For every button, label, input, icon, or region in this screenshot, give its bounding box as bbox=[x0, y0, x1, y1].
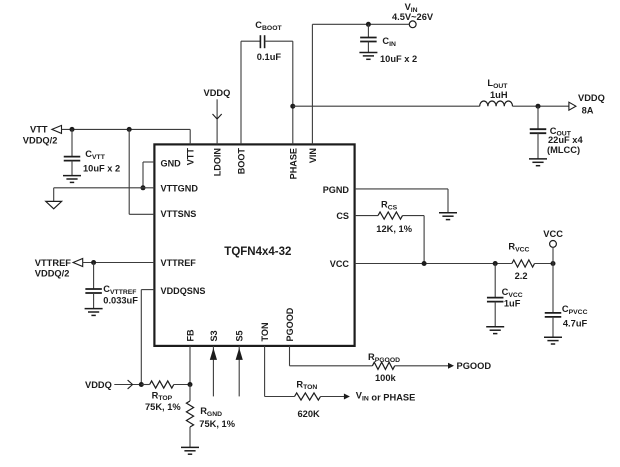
label VDDQ/2 bbox=[23, 135, 58, 145]
wire S3 strap bbox=[212, 346, 214, 397]
pin label VTTREF bbox=[161, 258, 197, 268]
capacitor CBOOT bbox=[241, 35, 293, 48]
junction dot PHASE bbox=[290, 104, 295, 109]
wire TON pin lead bbox=[265, 346, 295, 397]
label 22uF x4 bbox=[548, 135, 583, 145]
capacitor COUT bbox=[530, 106, 547, 159]
arrowhead VDDQ right bbox=[128, 380, 133, 389]
junction dot VTTREF/Cvttref bbox=[91, 260, 96, 265]
pin label CS bbox=[336, 211, 349, 221]
svg-text:VCC: VCC bbox=[543, 229, 563, 239]
pin label BOOT bbox=[237, 148, 247, 175]
label 10uF x 2 cin bbox=[380, 54, 417, 64]
svg-text:VTTSNS: VTTSNS bbox=[161, 209, 197, 219]
wire VDDQ into LDOIN pin bbox=[216, 99, 218, 144]
label 12K 1% bbox=[376, 224, 412, 234]
svg-text:GND: GND bbox=[161, 159, 182, 169]
label VDDQ top bbox=[204, 88, 231, 98]
svg-text:VIN: VIN bbox=[308, 148, 318, 163]
node VTTREF output terminal arrow bbox=[73, 259, 83, 267]
wire RCS to VCC rail bbox=[403, 216, 425, 264]
wire PGND bbox=[355, 189, 448, 213]
svg-text:LDOIN: LDOIN bbox=[213, 148, 223, 176]
pin label VCC bbox=[330, 259, 350, 269]
svg-text:620K: 620K bbox=[298, 409, 321, 419]
capacitor CVTTREF bbox=[85, 263, 102, 309]
inductor LOUT bbox=[480, 101, 513, 106]
wire RTON to arrow bbox=[321, 396, 345, 398]
junction dot GND/VTTGND bbox=[141, 185, 146, 190]
resistor RTOP bbox=[150, 381, 174, 388]
svg-text:VDDQ/2: VDDQ/2 bbox=[35, 269, 70, 279]
svg-text:VDDQ/2: VDDQ/2 bbox=[23, 135, 58, 145]
wire RTOP to FB node bbox=[174, 384, 190, 386]
svg-text:100k: 100k bbox=[375, 373, 397, 383]
label 10uF x 2 bbox=[83, 164, 120, 174]
svg-text:1uH: 1uH bbox=[490, 90, 508, 100]
junction dot VIN/Cin bbox=[366, 22, 371, 27]
label LOUT bbox=[487, 78, 508, 90]
wire LOUT to VDDQ out bbox=[513, 105, 569, 107]
label 1uH bbox=[490, 90, 508, 100]
label VIN or PHASE bbox=[356, 391, 416, 403]
IC U1 part-number label TQFN4x4-32 bbox=[224, 246, 291, 258]
node VTT output terminal arrow bbox=[52, 125, 62, 133]
resistor RCS bbox=[378, 212, 403, 219]
ground earth PGND bbox=[439, 213, 457, 220]
svg-text:VTT: VTT bbox=[186, 148, 196, 166]
pin label VDDQSNS bbox=[161, 286, 206, 296]
arrowhead S3 up bbox=[210, 348, 217, 360]
pin label VTT bbox=[186, 148, 196, 166]
label VDDQ bottom bbox=[85, 380, 112, 390]
wire VDDQ feed arrow bbox=[114, 384, 141, 386]
svg-text:0.033uF: 0.033uF bbox=[103, 296, 138, 306]
wire RGND to ground bbox=[189, 427, 191, 447]
junction dot VTT/VTTSNS bbox=[127, 127, 132, 132]
svg-text:S3: S3 bbox=[209, 330, 219, 341]
svg-text:10uF x 2: 10uF x 2 bbox=[83, 164, 120, 174]
arrowhead PGOOD bbox=[448, 363, 454, 369]
svg-text:FB: FB bbox=[186, 329, 196, 342]
pin label GND bbox=[161, 159, 182, 169]
wire VIN rail bbox=[312, 24, 409, 144]
resistor RVCC bbox=[512, 260, 535, 267]
svg-text:22uF x4: 22uF x4 bbox=[548, 135, 583, 145]
wire VTT pin lead bbox=[189, 129, 191, 144]
junction dot CS/VCC bbox=[422, 261, 427, 266]
pin label TON bbox=[260, 322, 270, 341]
node VIN terminal circle bbox=[409, 21, 416, 28]
label 4.7uF bbox=[563, 318, 588, 328]
wire VTTSNS to VTT rail bbox=[129, 129, 154, 214]
ground signal triangle VTTGND bbox=[46, 201, 62, 208]
wire S5 strap bbox=[238, 346, 240, 397]
label 100k bbox=[375, 373, 397, 383]
pin label S3 bbox=[209, 330, 219, 341]
svg-text:VDDQ: VDDQ bbox=[85, 380, 112, 390]
svg-text:(MLCC): (MLCC) bbox=[547, 145, 580, 155]
arrowhead VIN-or-PHASE bbox=[344, 394, 350, 400]
svg-text:CS: CS bbox=[336, 211, 349, 221]
junction dot Cout bbox=[536, 104, 541, 109]
label 1uF bbox=[504, 298, 521, 308]
pin label PHASE bbox=[288, 148, 298, 179]
svg-text:1uF: 1uF bbox=[504, 298, 521, 308]
label VDDQ/2 ref bbox=[35, 269, 70, 279]
svg-text:75K, 1%: 75K, 1% bbox=[199, 419, 235, 429]
svg-text:75K, 1%: 75K, 1% bbox=[145, 402, 181, 412]
svg-text:VTTGND: VTTGND bbox=[161, 183, 199, 193]
label CIN bbox=[382, 36, 396, 48]
label 620K bbox=[298, 409, 321, 419]
label 2.2 bbox=[515, 271, 528, 281]
pin label VTTSNS bbox=[161, 209, 197, 219]
pin label PGND bbox=[323, 185, 350, 195]
wire GND pin stub bbox=[143, 162, 154, 188]
wire PGOOD pin lead bbox=[290, 346, 373, 366]
label CVCC bbox=[502, 287, 523, 299]
svg-text:4.7uF: 4.7uF bbox=[563, 318, 588, 328]
svg-text:BOOT: BOOT bbox=[237, 148, 247, 175]
label COUT bbox=[550, 126, 572, 138]
svg-text:PGOOD: PGOOD bbox=[457, 361, 492, 371]
label CVTTREF bbox=[103, 284, 136, 296]
svg-text:10uF x 2: 10uF x 2 bbox=[380, 54, 417, 64]
wire VTTGND bbox=[54, 188, 155, 202]
pin label PGOOD bbox=[285, 307, 295, 341]
label 75K 1% top bbox=[145, 402, 181, 412]
resistor RGND bbox=[186, 401, 193, 427]
pin label FB bbox=[186, 329, 196, 342]
svg-text:TQFN4x4-32: TQFN4x4-32 bbox=[224, 246, 291, 258]
ground earth under RGND bbox=[181, 447, 199, 454]
resistor RTON bbox=[295, 393, 321, 400]
wire RVCC to VCC terminal bbox=[535, 263, 554, 265]
junction dot Cpvcc bbox=[551, 261, 556, 266]
wire VDDQSNS to FB divider bbox=[141, 290, 154, 385]
label VCC terminal bbox=[543, 229, 563, 239]
IC U1 TQFN4x4-32 package body bbox=[154, 144, 354, 346]
label CPVCC bbox=[562, 304, 588, 316]
junction dot FB bbox=[188, 382, 193, 387]
label CVTT bbox=[85, 149, 105, 161]
svg-text:VDDQSNS: VDDQSNS bbox=[161, 286, 206, 296]
svg-text:VDDQ: VDDQ bbox=[578, 93, 605, 103]
ground earth under CVTTREF bbox=[85, 309, 103, 316]
label RVCC bbox=[508, 242, 529, 254]
label RTON bbox=[296, 379, 317, 391]
svg-text:TON: TON bbox=[260, 322, 270, 341]
svg-text:12K, 1%: 12K, 1% bbox=[376, 224, 412, 234]
node VCC terminal circle bbox=[550, 241, 557, 264]
svg-text:VTTREF: VTTREF bbox=[161, 258, 197, 268]
svg-text:0.1uF: 0.1uF bbox=[257, 52, 282, 62]
pin label VIN bbox=[308, 148, 318, 163]
svg-text:VCC: VCC bbox=[330, 259, 350, 269]
wire FB pin lead bbox=[189, 346, 191, 385]
label 4.5V~26V bbox=[392, 12, 434, 22]
label 0.1uF bbox=[257, 52, 282, 62]
wire BOOT pin lead bbox=[240, 41, 242, 144]
capacitor CVCC bbox=[487, 264, 504, 327]
svg-text:VTTREF: VTTREF bbox=[35, 258, 71, 268]
label 75K 1% gnd bbox=[199, 419, 235, 429]
ground earth under CVTT bbox=[63, 176, 81, 183]
arrowhead VDDQ down bbox=[213, 114, 222, 119]
wire CS to RCS bbox=[355, 215, 378, 217]
wire VTT rail bbox=[62, 128, 191, 130]
ground earth under CIN bbox=[359, 53, 377, 60]
label VDDQ out bbox=[578, 93, 605, 103]
arrowhead S5 up bbox=[236, 348, 243, 360]
junction dot VTT/Cvtt bbox=[70, 127, 75, 132]
label VTT bbox=[30, 125, 48, 135]
pin label VTTGND bbox=[161, 183, 199, 193]
junction dot VDDQ/VDDQSNS bbox=[139, 382, 144, 387]
wire FB node to RGND bbox=[189, 385, 191, 402]
capacitor CPVCC bbox=[545, 264, 562, 338]
svg-text:8A: 8A bbox=[582, 106, 594, 116]
label RGND bbox=[200, 406, 222, 418]
capacitor CIN bbox=[360, 24, 377, 52]
svg-text:2.2: 2.2 bbox=[515, 271, 528, 281]
ground earth under CVCC bbox=[486, 327, 504, 334]
svg-text:PGND: PGND bbox=[323, 185, 350, 195]
label 8A bbox=[582, 106, 594, 116]
node VDDQ output arrow bbox=[569, 102, 576, 110]
ground earth under COUT bbox=[529, 159, 547, 166]
label RCS bbox=[381, 200, 398, 212]
label CBOOT bbox=[255, 20, 282, 32]
svg-text:VDDQ: VDDQ bbox=[204, 88, 231, 98]
resistor RPGOOD bbox=[372, 362, 394, 369]
svg-text:PHASE: PHASE bbox=[288, 148, 298, 179]
wire RPGOOD to arrow bbox=[395, 365, 449, 367]
pin label LDOIN bbox=[213, 148, 223, 176]
ground earth under CPVCC bbox=[544, 337, 562, 344]
label RTOP bbox=[152, 390, 173, 402]
capacitor CVTT bbox=[64, 129, 81, 175]
wire CBOOT to PHASE bbox=[292, 41, 294, 144]
label MLCC bbox=[547, 145, 580, 155]
wire VCC rail bbox=[355, 263, 512, 265]
label 0.033uF bbox=[103, 296, 138, 306]
svg-text:S5: S5 bbox=[235, 330, 245, 341]
wire PHASE to LOUT bbox=[293, 105, 480, 107]
label RPGOOD bbox=[368, 352, 400, 364]
svg-text:PGOOD: PGOOD bbox=[285, 307, 295, 341]
pin label S5 bbox=[235, 330, 245, 341]
junction dot Cvcc bbox=[493, 261, 498, 266]
label VIN source bbox=[405, 2, 418, 14]
svg-text:VTT: VTT bbox=[30, 125, 48, 135]
label PGOOD out bbox=[457, 361, 492, 371]
wire VTTREF bbox=[83, 262, 155, 264]
label VTTREF bbox=[35, 258, 71, 268]
wire to RTOP bbox=[141, 384, 149, 386]
